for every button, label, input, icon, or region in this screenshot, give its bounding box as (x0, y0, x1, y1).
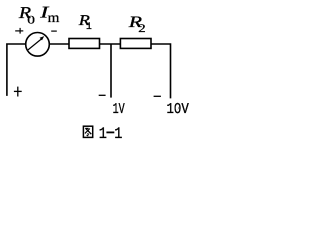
svg-text:1: 1 (86, 22, 92, 33)
svg-text:m: m (48, 11, 60, 26)
svg-text:1: 1 (114, 125, 122, 143)
svg-text:1: 1 (99, 125, 107, 143)
svg-text:2: 2 (138, 22, 145, 35)
svg-text:10V: 10V (167, 101, 189, 118)
svg-text:1V: 1V (113, 101, 125, 118)
svg-text:0: 0 (27, 14, 35, 27)
